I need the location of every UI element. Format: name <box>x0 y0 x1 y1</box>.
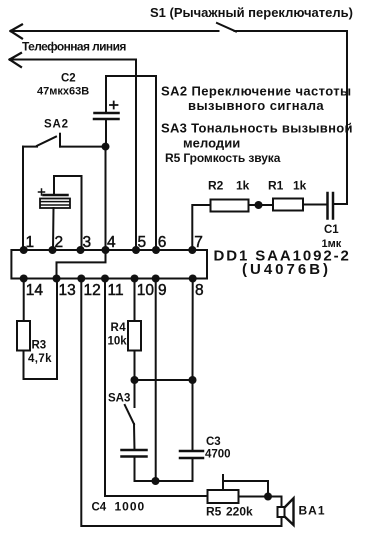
svg-text:13: 13 <box>59 282 76 299</box>
label R3 <box>28 340 52 366</box>
svg-text:12: 12 <box>84 282 101 299</box>
svg-text:1k: 1k <box>293 179 307 193</box>
wire C1 to right rail <box>333 203 347 205</box>
wire pin 9 down <box>155 279 157 482</box>
svg-text:47мкх63В: 47мкх63В <box>37 86 89 98</box>
resistor R5 <box>208 490 239 503</box>
label C1 <box>322 224 342 250</box>
svg-text:10: 10 <box>137 282 155 299</box>
resistor R4 <box>128 321 141 351</box>
svg-text:вызывного сигнала: вызывного сигнала <box>188 98 324 113</box>
svg-text:4700: 4700 <box>205 449 231 461</box>
svg-text:R5: R5 <box>206 505 222 519</box>
svg-text:Телефонная линия: Телефонная линия <box>22 40 126 54</box>
svg-text:R4: R4 <box>111 322 127 334</box>
label C4 <box>92 500 146 514</box>
svg-text:SA2: SA2 <box>44 119 69 131</box>
node C2/SA2 junction <box>102 143 110 151</box>
switch SA3 <box>125 380 135 424</box>
svg-text:4: 4 <box>107 234 116 251</box>
DD1 pin 11 <box>101 275 124 300</box>
DD1 pin 6 <box>152 234 166 254</box>
DD1 pin 1 <box>20 234 34 254</box>
svg-text:BA1: BA1 <box>299 504 326 518</box>
svg-text:SA3 Тональность вызывной: SA3 Тональность вызывной <box>161 121 353 136</box>
resistor R3 <box>17 321 30 351</box>
svg-text:5: 5 <box>138 234 147 251</box>
label C2 value <box>37 73 89 98</box>
svg-text:14: 14 <box>26 282 44 299</box>
label R5 <box>206 505 253 519</box>
capacitor C3 <box>180 451 203 458</box>
label C3 <box>205 436 231 461</box>
wire pin 11 to R5 <box>105 279 208 497</box>
DD1 pin 2 <box>49 234 64 254</box>
wire R3 to pin 13 <box>24 279 58 380</box>
capacitor C1 <box>328 193 334 219</box>
capacitor C2 <box>94 102 119 120</box>
wire R1 to C1 <box>303 204 328 206</box>
svg-text:C4: C4 <box>92 502 107 514</box>
wire C2 top to pin 6 <box>106 76 156 250</box>
resistor R2 <box>211 200 249 212</box>
svg-text:R3: R3 <box>32 340 47 352</box>
wire R5 to speaker <box>239 497 282 508</box>
DD1 pin 4 <box>102 234 117 254</box>
switch SA2 <box>23 134 106 147</box>
DD1 pin 7 <box>188 234 203 254</box>
label SA2 <box>44 119 69 131</box>
wire pin 12 to speaker bottom <box>81 279 281 527</box>
svg-text:220k: 220k <box>226 505 253 519</box>
legend text <box>161 84 353 166</box>
speaker BA1 <box>278 498 294 525</box>
svg-text:1: 1 <box>26 234 35 251</box>
svg-text:R5 Громкость звука: R5 Громкость звука <box>165 151 281 165</box>
wire cap to pin 2 <box>52 208 55 250</box>
label DD1 <box>214 248 351 279</box>
wire C4 bottom to C3 bottom <box>135 457 193 482</box>
DD1 pin 13 <box>53 275 76 300</box>
IC DD1 body <box>11 250 207 279</box>
wire pin 8 down to C3 <box>192 279 194 452</box>
DD1 pin 8 <box>189 275 204 300</box>
node pin 9 bottom junction <box>152 477 160 485</box>
wire S1 to right rail <box>235 31 348 204</box>
label SA3 <box>108 393 130 405</box>
wire internal pin4 to pin13 <box>57 250 106 279</box>
wire SA2 to pin 1 <box>22 147 24 250</box>
wire SA3 to C4 <box>133 424 136 450</box>
DD1 pin 12 <box>77 275 100 300</box>
label R2 <box>208 179 250 193</box>
wire cap to pin 3 <box>54 176 82 250</box>
svg-text:9: 9 <box>158 282 167 299</box>
node R4 bottom junction <box>131 376 139 384</box>
svg-text:1000: 1000 <box>115 500 146 514</box>
label R1 <box>268 179 307 193</box>
capacitor between pins 2 and 3 <box>39 189 71 208</box>
wire junction to pin 8 line <box>135 379 193 381</box>
label S1 <box>150 5 353 20</box>
wire C2 bottom to pin 4 <box>105 119 108 250</box>
wire R2 to R1 <box>249 204 274 206</box>
svg-text:C1: C1 <box>324 224 339 236</box>
svg-text:R2: R2 <box>208 179 224 193</box>
wire pin 14 to R3 <box>23 279 25 322</box>
node wiper junction <box>264 493 272 501</box>
svg-text:4,7k: 4,7k <box>28 353 52 365</box>
label BA1 <box>299 504 326 518</box>
DD1 pin 14 <box>20 275 44 300</box>
node pin 8 line junction <box>189 376 197 384</box>
wire telephone line 2 to pin 5 <box>10 53 136 250</box>
svg-text:8: 8 <box>195 282 204 299</box>
DD1 pin 5 <box>132 234 146 254</box>
label R4 <box>108 322 128 348</box>
svg-text:7: 7 <box>194 234 203 251</box>
svg-text:C2: C2 <box>61 73 76 85</box>
wire pin 7 to R2 <box>192 205 210 250</box>
wire pin 10 to R4 <box>134 279 136 322</box>
svg-text:1k: 1k <box>236 179 250 193</box>
svg-text:3: 3 <box>83 234 92 251</box>
svg-text:SA2 Переключение частоты: SA2 Переключение частоты <box>161 84 352 99</box>
svg-text:(U4076B): (U4076B) <box>242 261 331 278</box>
svg-text:1мк: 1мк <box>322 238 342 250</box>
switch S1 blade <box>217 23 236 32</box>
svg-text:10k: 10k <box>108 336 128 348</box>
resistor R1 <box>273 199 303 211</box>
svg-text:2: 2 <box>55 234 64 251</box>
DD1 pin 9 <box>152 275 167 300</box>
R5 wiper <box>223 475 268 497</box>
DD1 pin 3 <box>77 234 92 254</box>
svg-text:6: 6 <box>158 234 167 251</box>
svg-text:11: 11 <box>108 282 124 299</box>
label telephone line <box>22 40 126 54</box>
DD1 pin 10 <box>131 275 155 300</box>
wire R4 to junction <box>134 351 136 381</box>
svg-text:C3: C3 <box>206 436 221 448</box>
svg-text:SA3: SA3 <box>108 393 130 405</box>
svg-text:S1 (Рычажный переключатель): S1 (Рычажный переключатель) <box>150 5 353 20</box>
node R2/R1 junction <box>255 201 263 209</box>
wire telephone line 1 <box>11 25 219 39</box>
svg-text:мелодии: мелодии <box>183 136 240 151</box>
capacitor C4 <box>122 450 147 457</box>
svg-text:R1: R1 <box>268 179 284 193</box>
